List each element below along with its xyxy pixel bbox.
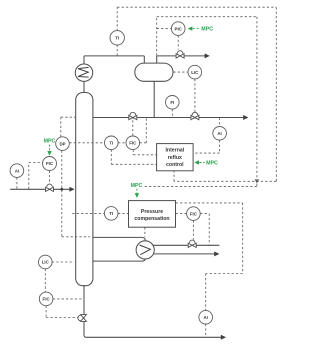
svg-text:PIC: PIC [175,26,183,31]
instrument TI (mid column temperature) [105,136,119,150]
instrument FIC (feed flow controller) [43,157,57,171]
signal wire: PIC output to vapor valve [177,35,179,49]
wire: heating medium outlet line with arrow [153,253,214,255]
signal wire: pressure tap branch to PIC [157,28,172,30]
wire: reflux / distillate line with arrow [93,117,244,119]
signal wire: AI feed tap [16,178,18,190]
svg-text:AI: AI [217,131,221,136]
svg-text:DP: DP [59,141,65,146]
instrument TI (lower column temperature) [104,207,118,221]
signal wire: TI top tap to overhead line [116,45,118,56]
heat exchanger: reboiler E2 [136,241,154,259]
signal wire: pressure compensation box lower tap [144,227,146,237]
svg-text:MPC: MPC [44,139,56,145]
MPC setpoint arrow to pressure compensation [131,183,143,198]
svg-text:FIC: FIC [190,211,198,216]
valve: bottoms valve (vertical, FIC controlled) [78,315,87,322]
wire: feed line with arrow into column [10,188,70,190]
arrowhead on pressure signal joining MPC line [255,179,260,183]
svg-text:TI: TI [115,36,119,41]
instrument DP (column differential pressure) [56,137,70,151]
signal wire: inner pressure loop to MPC line [143,17,257,187]
valve: feed valve [46,184,54,191]
signal wire: outer MPC loop (TI top to IRC box) [117,7,276,181]
instrument AI (distillate analyzer) [213,127,227,141]
controller box: pressure compensation [129,201,176,228]
instrument FIC (steam flow controller) [187,207,201,221]
instrument LIC (drum level controller) [188,65,202,79]
svg-text:AI: AI [15,168,19,173]
svg-text:Internal: Internal [165,148,184,154]
svg-text:MPC: MPC [206,160,218,166]
signal wire: column temperature tap to TI bottom to pressure compensation to FIC steam [72,212,186,214]
valve: steam valve (FIC controlled) [188,240,196,247]
signal wire: TI mid to IRC box [111,150,156,165]
instrument FIC (bottoms flow controller) [39,292,53,306]
wire: vapor product line from drum through valve with arrow [157,56,206,64]
signal wire: reflux FIC to IRC box [133,150,156,155]
instrument AI (bottoms analyzer) [199,310,213,324]
svg-text:MPC: MPC [131,183,143,189]
svg-text:LIC: LIC [191,70,199,75]
signal wire: FIC bottom flow tap and output to bottoms valve [46,299,83,318]
signal wire: LIC bottom level tap and link to FIC bottom [45,262,74,292]
svg-text:FI: FI [170,100,174,105]
signal wire: AI distillate tap and output to IRC box [193,118,219,153]
signal wire: feed flow tap to FIC [29,163,43,190]
svg-text:reflux: reflux [168,155,182,161]
valve: vapor product control valve [176,51,184,58]
svg-text:AI: AI [203,315,207,320]
MPC setpoint arrow to internal reflux control [194,160,218,166]
signal wire: AI bottoms loop from pressure compensation box [176,203,243,337]
signal wire: feed FIC to feed valve [49,171,51,185]
svg-text:FIC: FIC [43,297,51,302]
signal wire: reflux FIC to reflux valve [132,120,134,136]
valve: reflux valve [129,112,137,119]
svg-text:MPC: MPC [201,26,213,32]
svg-text:TI: TI [109,211,113,216]
controller box: internal reflux control [157,144,194,171]
wire: reflux drum downcomer [153,81,155,117]
MPC setpoint arrow to feed FIC [44,139,56,156]
svg-text:compensation: compensation [134,216,169,222]
wire: bottoms product line with arrow [84,286,221,338]
signal wire: DP to TI to FIC chain with reflux line tap [69,118,146,143]
signal wire: DP upper tap to column [61,117,76,137]
wire: overhead vapor riser column top to condenser [84,56,144,93]
svg-text:TI: TI [109,141,113,146]
heat exchanger: condenser E1 [75,64,92,81]
signal wire: drum level to LIC and LIC to distillate valve [173,72,195,112]
wire: heating medium inlet line [153,244,219,246]
svg-text:Pressure: Pressure [141,209,163,215]
wire: reboiler return to column bottom [93,259,145,261]
instrument FI (distillate flow indicator) [166,96,180,110]
instrument PIC (pressure controller) [171,22,185,36]
svg-text:control: control [166,162,184,168]
instrument LIC (bottom level controller) [39,255,53,269]
svg-text:FIC: FIC [129,141,137,146]
signal wire: FI tap to distillate line [171,109,173,117]
svg-text:FIC: FIC [46,161,54,166]
valve: distillate valve (LIC controlled) [191,112,199,119]
node: feed line junction dot [60,188,63,191]
vessel: distillation column C1 [76,93,93,286]
vessel: reflux drum D1 [135,63,173,81]
MPC setpoint arrow to PIC [188,26,214,32]
signal wire: FIC steam flow tap and output to steam valve [193,214,209,245]
wire: column bottoms to reboiler top [93,237,145,240]
instrument AI (feed analyzer) [10,164,24,178]
instrument TI (overhead temperature) [110,31,124,45]
instrument FIC (reflux flow controller) [126,136,140,150]
signal wire: DP lower tap to column bottom section [62,150,90,236]
svg-text:LIC: LIC [42,260,50,265]
